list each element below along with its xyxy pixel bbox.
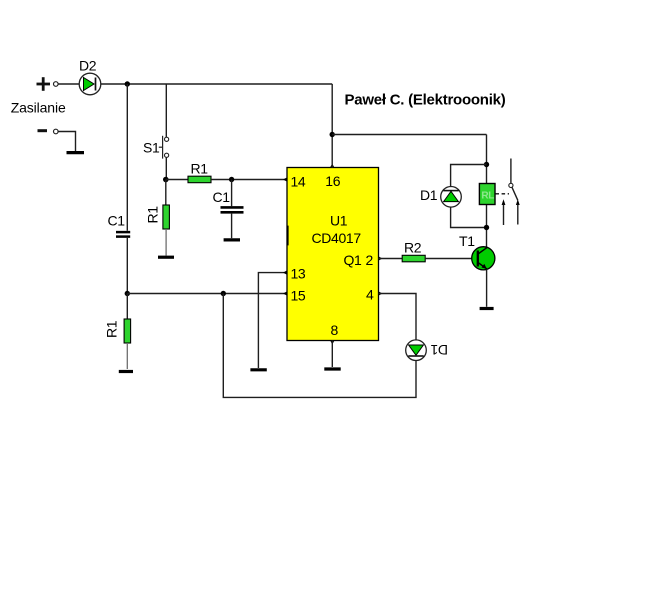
wire + terminal to D2 <box>58 83 79 85</box>
wire D1 branch lower <box>451 207 487 227</box>
svg-text:R1: R1 <box>145 206 161 224</box>
resistor R2 <box>402 240 425 262</box>
wire node to R1 <box>166 179 188 181</box>
IC U1 CD4017 <box>287 168 379 341</box>
svg-text:RL: RL <box>481 190 494 201</box>
pin 8 marker <box>330 340 335 344</box>
svg-text:Paweł C. (Elektrooonik): Paweł C. (Elektrooonik) <box>345 92 506 109</box>
diode D1 (indicator) <box>406 340 448 361</box>
capacitor C1 (timing) <box>213 180 244 239</box>
junction D1 top branch <box>484 162 489 167</box>
svg-text:D1: D1 <box>420 187 438 203</box>
junction S1 / R1 node <box>163 177 169 183</box>
svg-text:D2: D2 <box>79 58 97 74</box>
svg-text:R2: R2 <box>404 240 422 256</box>
wire pin 2 to R2 <box>379 258 403 260</box>
wire right rail vertical to T1 <box>486 135 488 248</box>
switch S1 <box>143 84 169 180</box>
power + terminal <box>37 77 59 91</box>
wire left rail upper <box>126 84 128 231</box>
svg-text:Zasilanie: Zasilanie <box>11 100 66 116</box>
junction D1 bottom branch <box>484 225 489 230</box>
wire right rail horizontal <box>332 134 486 136</box>
ground (pin 13) <box>250 368 266 371</box>
pin 4 marker <box>378 291 382 296</box>
wire - terminal to ground <box>58 132 75 152</box>
ground (minus terminal) <box>67 151 85 154</box>
wire pin 8 to ground <box>331 341 333 368</box>
ground (T1 emitter) <box>480 307 494 310</box>
wire top rail <box>101 83 332 85</box>
pin 2 marker <box>378 256 382 261</box>
svg-text:Q1: Q1 <box>344 252 363 268</box>
junction R1 / C1 node <box>229 177 234 182</box>
diode D2 <box>79 58 101 95</box>
svg-text:13: 13 <box>291 266 306 282</box>
resistor R1 (left bottom vertical) <box>104 294 131 370</box>
svg-text:D1: D1 <box>430 342 448 358</box>
pin 16 marker <box>330 164 335 168</box>
wire T1 emitter to ground <box>486 270 488 307</box>
wire D1 branch upper <box>451 165 487 187</box>
ground (timing C1) <box>224 238 240 241</box>
wire pin 15 horizontal <box>127 293 287 295</box>
svg-text:T1: T1 <box>459 233 475 249</box>
junction left rail / pin15 wire <box>125 291 130 296</box>
ground (pin 8) <box>324 367 340 370</box>
diode D1 (flyback) <box>420 187 461 208</box>
power - terminal <box>38 129 59 134</box>
svg-text:U1: U1 <box>330 213 348 229</box>
junction bottom loop node <box>221 291 226 296</box>
svg-text:R1: R1 <box>191 161 209 177</box>
svg-text:2: 2 <box>366 252 374 268</box>
wire pin 13 <box>258 273 287 368</box>
transistor T1 <box>459 233 495 270</box>
svg-text:15: 15 <box>291 288 306 304</box>
svg-text:S1: S1 <box>143 139 160 155</box>
junction pin16 / right rail <box>330 132 335 137</box>
relay coil RL <box>479 184 495 205</box>
pin 14 marker <box>283 177 287 182</box>
svg-text:C1: C1 <box>108 213 126 229</box>
wire bottom loop <box>223 294 416 398</box>
capacitor C1 (left) <box>108 213 131 237</box>
resistor R1 (horizontal) <box>188 161 211 183</box>
resistor R1 (middle vertical) <box>145 180 170 256</box>
dashed link RL to contact <box>496 193 510 195</box>
junction left rail / top rail <box>125 81 130 86</box>
relay contact (switch) <box>502 159 520 226</box>
wire pin 16 vertical <box>331 84 333 168</box>
ground (left bottom R1) <box>119 370 133 373</box>
pin 15 marker <box>283 291 287 296</box>
svg-text:16: 16 <box>325 173 340 189</box>
svg-text:4: 4 <box>366 287 374 303</box>
ground (middle R1) <box>158 256 174 259</box>
svg-text:R1: R1 <box>104 320 120 338</box>
wire left rail lower <box>126 238 128 294</box>
wire R2 to T1 base <box>425 258 472 260</box>
pin 13 marker <box>283 270 287 275</box>
svg-text:8: 8 <box>331 322 339 338</box>
svg-text:CD4017: CD4017 <box>312 230 362 246</box>
wire pin 4 to D1 bottom <box>379 294 417 340</box>
svg-text:14: 14 <box>291 174 306 190</box>
svg-text:C1: C1 <box>213 189 231 205</box>
wire R1 to pin 14 <box>211 179 287 181</box>
